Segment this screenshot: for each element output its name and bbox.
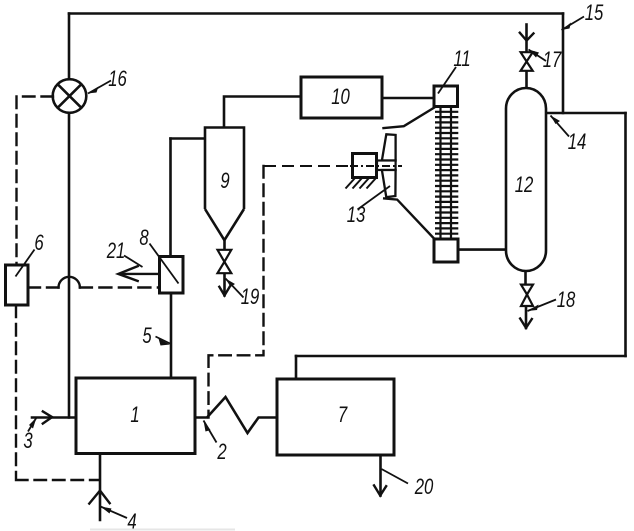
wire exchanger bottom box to vessel 12 xyxy=(458,248,507,251)
svg-text:6: 6 xyxy=(34,231,43,256)
leader line label 19 xyxy=(226,279,244,298)
valve 18 xyxy=(521,285,533,306)
motor of fan 13 xyxy=(353,154,377,178)
flow arrowhead on outlet 20 (down) xyxy=(373,484,386,495)
wire stem hopper 9 to valve 19 xyxy=(223,240,226,250)
wire line 3 into box 1 xyxy=(32,416,77,419)
bridge hop over main line xyxy=(59,277,80,288)
leader line label 11 xyxy=(438,67,456,94)
wire right drop from top line xyxy=(562,14,565,114)
svg-text:20: 20 xyxy=(414,475,434,500)
flow arrowhead on outlet 18 (down) xyxy=(520,318,533,328)
fan 13 shroud upper lip and diagonal xyxy=(382,107,436,129)
shaft centerline dash-dot through motor 13 xyxy=(264,165,402,167)
flow arrowhead on line 3 xyxy=(42,411,52,424)
vessel 9 (hopper) xyxy=(205,128,244,241)
svg-text:21: 21 xyxy=(106,239,125,264)
wire line 5 lower segment xyxy=(170,293,173,378)
leader line label 8 xyxy=(150,244,179,284)
box 1 (reactor) xyxy=(76,378,195,454)
svg-text:2: 2 xyxy=(216,440,226,465)
wire outlet below valve 19 xyxy=(223,273,226,295)
wire outlet below valve 18 xyxy=(525,306,528,328)
wire zigzag 2 between box 1 and box 7 xyxy=(195,397,277,433)
leader line label 17 xyxy=(529,50,547,62)
box 6 xyxy=(6,265,29,305)
valve 16 (circle with X) xyxy=(53,79,87,113)
wire outlet 20 below box 7 xyxy=(379,455,382,496)
wire riser vessel 9 to box 10 xyxy=(224,97,301,128)
svg-text:12: 12 xyxy=(515,173,534,198)
leader line label 20 xyxy=(382,469,409,484)
leader arrowhead 14 xyxy=(551,116,561,125)
leader line label 15 xyxy=(562,17,585,31)
leader line label 3 xyxy=(28,418,37,432)
leader line label 18 xyxy=(528,300,557,312)
wire line 5 upper segment xyxy=(169,139,172,257)
leader line label 21 xyxy=(124,256,143,268)
box 10 xyxy=(301,77,382,118)
dashed line fan area down to zigzag xyxy=(209,166,264,418)
svg-text:15: 15 xyxy=(585,1,604,26)
valve 17 xyxy=(521,52,533,71)
dashed line valve 16 to box 6 xyxy=(17,97,54,266)
exchanger 11 finned tube xyxy=(435,107,458,240)
fan 13 lower blade xyxy=(382,170,396,197)
svg-text:4: 4 xyxy=(127,510,136,531)
leader arrowhead 17 xyxy=(529,50,540,58)
leader arrowhead 5 xyxy=(159,339,171,346)
wire bottom return line xyxy=(296,355,626,358)
svg-text:14: 14 xyxy=(568,130,587,155)
valve 19 xyxy=(218,250,232,273)
arrow 21 out of box 8 xyxy=(118,266,159,282)
wire outlet 4 below box 1 xyxy=(99,454,102,521)
wire left main down line xyxy=(68,114,71,418)
leader line label 13 xyxy=(358,186,391,210)
wire box 10 to exchanger top box xyxy=(382,97,434,100)
leader arrowhead 4 xyxy=(101,507,112,514)
scan smudge bottom xyxy=(90,529,235,531)
svg-text:17: 17 xyxy=(543,48,563,73)
vessel 12 (capsule) xyxy=(506,88,546,271)
wire stem valve 17 to vessel 12 xyxy=(525,71,528,89)
svg-text:7: 7 xyxy=(338,403,348,428)
fan 13 shroud lower lip and diagonal xyxy=(383,198,434,238)
wire top main line xyxy=(69,12,563,15)
wire left riser above valve 16 xyxy=(68,14,71,80)
dashed line box 6 to box 8 left part xyxy=(29,286,59,288)
leader arrowhead 2 xyxy=(204,421,211,432)
wire inlet arrow line above valve 17 xyxy=(525,25,528,53)
fan 13 hub xyxy=(377,161,396,171)
svg-text:10: 10 xyxy=(331,85,350,110)
wire stem vessel 12 to valve 18 xyxy=(524,271,527,285)
leader arrowhead 16 xyxy=(88,87,99,94)
svg-text:1: 1 xyxy=(130,403,139,428)
flow arrowhead on inlet 17 (down) xyxy=(519,32,534,41)
exchanger 11 bottom header box xyxy=(434,239,458,262)
leader line label 5 xyxy=(156,337,171,344)
leader line label 2 xyxy=(204,421,217,443)
svg-text:16: 16 xyxy=(108,67,127,92)
leader line label 14 xyxy=(551,116,570,137)
leader line label 6 xyxy=(16,250,35,277)
leader line label 4 xyxy=(101,507,128,519)
svg-text:3: 3 xyxy=(23,429,32,454)
box 7 xyxy=(277,379,394,455)
ground hatching under motor 13 xyxy=(346,178,377,189)
svg-text:5: 5 xyxy=(142,324,151,349)
flow arrowhead on outlet 19 (down) xyxy=(219,286,231,296)
svg-text:13: 13 xyxy=(347,203,366,228)
dashed line hop to box 8 xyxy=(80,286,160,288)
svg-text:19: 19 xyxy=(241,285,260,310)
exchanger 11 top header box xyxy=(434,86,458,107)
wire right vertical line xyxy=(624,113,627,356)
svg-text:11: 11 xyxy=(453,47,470,72)
leader arrowhead 19 xyxy=(226,279,236,288)
svg-text:18: 18 xyxy=(557,288,576,313)
box 8 xyxy=(160,257,184,294)
flow arrowhead on line 4 (up) xyxy=(89,491,111,505)
svg-text:9: 9 xyxy=(220,169,229,194)
wire port into vessel 9 xyxy=(171,137,206,140)
leader line label 16 xyxy=(88,81,111,94)
leader arrowhead 15 xyxy=(562,23,572,31)
dashed line box 6 bottom to line 4 xyxy=(16,306,99,481)
wire vessel 12 to right line xyxy=(546,112,626,115)
svg-text:8: 8 xyxy=(139,226,148,251)
wire into box 7 top xyxy=(295,356,298,380)
fan 13 upper blade xyxy=(382,134,396,160)
leader arrowhead 3 xyxy=(29,418,37,429)
leader arrowhead 18 xyxy=(528,305,539,312)
